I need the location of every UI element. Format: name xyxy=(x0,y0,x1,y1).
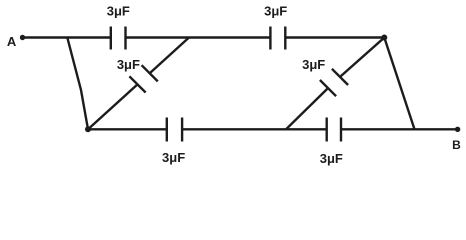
wire lower arm of diagonal capacitor C3 xyxy=(88,84,138,129)
value label 3uF for C5 xyxy=(162,150,185,165)
capacitor C6 3uF (bottom right) xyxy=(327,118,341,142)
svg-text:3μF: 3μF xyxy=(320,151,343,166)
svg-text:3μF: 3μF xyxy=(264,4,287,19)
wire top segment C1 to C2 xyxy=(126,36,271,38)
wire bottom segment C5 to C6 xyxy=(182,128,327,130)
value label 3uF for C3 xyxy=(117,57,140,72)
svg-text:B: B xyxy=(452,138,461,152)
wire top segment A to C1 xyxy=(23,36,111,38)
capacitor C5 3uF (bottom left) xyxy=(167,118,182,142)
wire upper arm of diagonal capacitor C3 xyxy=(150,38,189,74)
value label 3uF for C6 xyxy=(320,151,343,166)
node B terminal label xyxy=(452,138,461,152)
svg-text:3μF: 3μF xyxy=(117,57,140,72)
node C junction dot (bottom left) xyxy=(85,126,91,132)
wire diagonal from node D down to bottom wire xyxy=(384,38,414,130)
wire bottom segment C6 to node B xyxy=(341,128,458,130)
node A terminal label xyxy=(7,34,17,49)
value label 3uF for C2 xyxy=(264,4,287,19)
wire lower arm of diagonal capacitor C4 xyxy=(286,88,328,129)
capacitor C3 3uF (left diagonal) xyxy=(129,65,157,92)
svg-text:3μF: 3μF xyxy=(302,57,325,72)
wire upper arm of diagonal capacitor C4 xyxy=(340,38,384,77)
svg-text:3μF: 3μF xyxy=(107,4,130,19)
capacitor C1 3uF (top left) xyxy=(111,27,126,50)
value label 3uF for C1 xyxy=(107,4,130,19)
node B terminal dot xyxy=(455,127,460,132)
svg-text:3μF: 3μF xyxy=(162,150,185,165)
node D junction dot (top right) xyxy=(381,35,387,41)
node A terminal dot xyxy=(20,35,25,40)
value label 3uF for C4 xyxy=(302,57,325,72)
capacitor C2 3uF (top right) xyxy=(270,27,285,50)
wire diagonal from top wire down to node C xyxy=(67,38,88,130)
capacitor C4 3uF (right diagonal) xyxy=(320,69,348,96)
wire bottom segment node C to C5 xyxy=(88,128,167,130)
wire top segment C2 to node D xyxy=(285,36,384,38)
svg-text:A: A xyxy=(7,34,17,49)
